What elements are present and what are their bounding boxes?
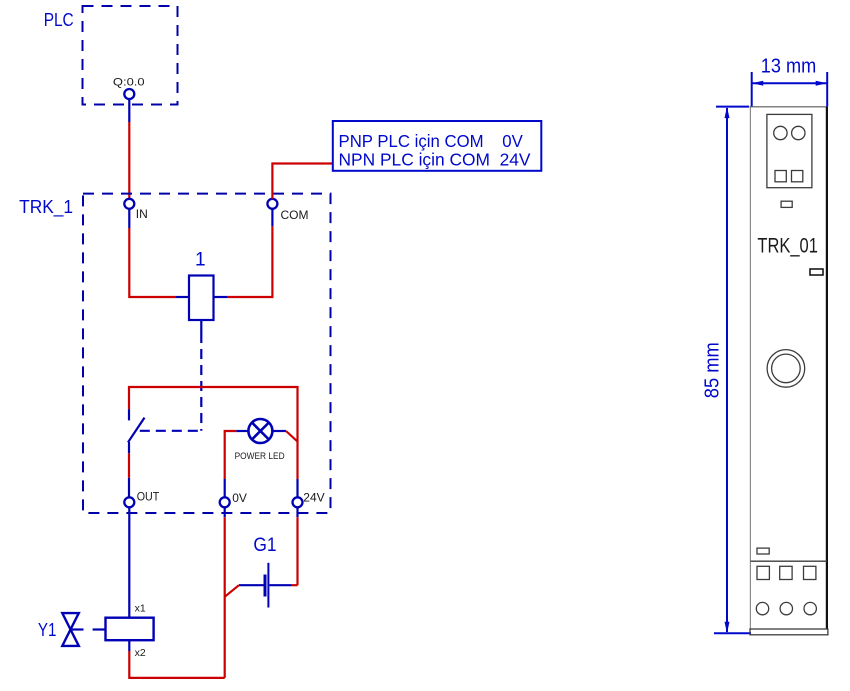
wire IN blue stub below [128, 209, 130, 228]
mechanical link dashed horizontal [140, 430, 202, 432]
svg-text:POWER LED: POWER LED [235, 451, 285, 462]
svg-text:1: 1 [195, 250, 206, 271]
svg-text:IN: IN [136, 207, 148, 221]
svg-text:OUT: OUT [137, 490, 160, 504]
terminal IN [124, 199, 134, 209]
wire coil to COM vertical (red) [227, 226, 272, 297]
wire 24V down to battery (red) [296, 517, 298, 585]
svg-text:G1: G1 [253, 535, 276, 556]
wire red loop top [129, 387, 298, 479]
wire 0V down (red) [224, 517, 226, 678]
pin label COM [281, 208, 309, 222]
svg-text:0V: 0V [232, 491, 247, 505]
module divider line [751, 560, 828, 562]
label TRK_1 [19, 197, 73, 218]
pin label 0V [232, 491, 247, 505]
wire lamp to 0V vertical (red) [225, 431, 237, 479]
mechanical link solid stub [200, 320, 202, 333]
wire 0V blue stub below [224, 507, 226, 517]
wire COM blue stub below [271, 209, 273, 227]
bottom circles [756, 602, 816, 614]
contact top stub (blue) [128, 409, 130, 420]
connector squares [775, 171, 803, 182]
small slot right [810, 269, 823, 275]
wire 24V blue stub above [296, 479, 298, 498]
label POWER LED [235, 451, 285, 462]
dimension 13 mm arrow line [752, 81, 828, 86]
wire Q:0.0 blue stub [128, 99, 130, 122]
small slot bottom left [757, 548, 769, 554]
label G1 [253, 535, 276, 556]
battery left wire (blue) [239, 584, 264, 586]
battery to 24V line (red) [292, 584, 298, 586]
valve stub [71, 628, 84, 630]
solenoid coil Y1 [106, 618, 154, 641]
svg-text:24V: 24V [303, 490, 324, 504]
ring [767, 350, 805, 388]
wire 24V blue stub below [296, 507, 298, 517]
contact bottom stub (blue) [128, 442, 130, 453]
battery G1 [265, 563, 268, 608]
note text line 1 [339, 131, 524, 151]
dimension 85 mm line [714, 107, 751, 634]
wire OUT blue stub above [128, 478, 130, 498]
svg-text:PLC: PLC [44, 10, 74, 30]
wire coil right stub (blue) [214, 296, 228, 298]
pin label x1 [135, 602, 146, 614]
battery junction diagonal (red) [225, 585, 239, 597]
svg-text:x1: x1 [135, 602, 146, 614]
label 1 (coil) [195, 250, 206, 271]
pin label OUT [137, 490, 160, 504]
wire COM to note box (red) [272, 164, 333, 199]
note text line 2 [339, 150, 531, 170]
label PLC [44, 10, 74, 30]
PLC enclosure box [83, 6, 178, 105]
terminal COM [267, 199, 277, 209]
svg-text:Y1: Y1 [38, 619, 57, 640]
battery right wire (blue) [270, 584, 292, 586]
svg-text:x2: x2 [135, 647, 146, 659]
svg-text:PNP PLC için COM 0V: PNP PLC için COM 0V [339, 131, 524, 151]
module bottom plate [750, 629, 828, 635]
contact blade [128, 418, 145, 443]
TRK_1 enclosure box [83, 194, 331, 513]
wire x2 to 0V line (red) [129, 651, 224, 678]
lamp POWER LED [248, 419, 272, 443]
wire OUT to solenoid x1 (blue) [128, 507, 130, 618]
pin label IN [136, 207, 148, 221]
dimension 13 mm extension lines [752, 72, 828, 107]
label Y1 [38, 619, 57, 640]
svg-text:TRK_1: TRK_1 [19, 197, 73, 218]
label TRK_01 [757, 234, 818, 258]
small slot below connector [781, 201, 792, 207]
wire 0V blue stub above [224, 479, 226, 498]
wire IN down to coil row (red) [129, 228, 175, 297]
terminal 24V [293, 497, 303, 507]
wire contact to OUT (red) [128, 453, 130, 478]
lamp left stub (blue) [236, 430, 248, 432]
dimension label 85 mm (rotated) [701, 342, 723, 398]
dimension label 13 mm [761, 56, 817, 78]
relay coil 1 [189, 276, 214, 321]
module top connector box [767, 114, 812, 187]
pin label 24V [303, 490, 324, 504]
connector circles [774, 126, 805, 139]
svg-text:85 mm: 85 mm [701, 342, 723, 398]
svg-text:13 mm: 13 mm [761, 56, 817, 78]
terminal 0V [220, 497, 230, 507]
wire Q:0.0 to IN (red) [128, 122, 130, 199]
terminal OUT [124, 497, 134, 507]
bottom squares [757, 566, 816, 579]
lamp right stub (blue) [272, 430, 286, 432]
svg-text:COM: COM [281, 208, 309, 222]
wire coil left stub (blue) [175, 296, 189, 298]
valve Y1 bowtie [62, 613, 79, 646]
module outline [750, 107, 827, 630]
pin label x2 [135, 647, 146, 659]
svg-text:TRK_01: TRK_01 [757, 234, 818, 258]
svg-text:NPN PLC için COM 24V: NPN PLC için COM 24V [339, 150, 531, 170]
wire lamp diagonal to 24V line (red) [286, 431, 298, 442]
svg-text:Q:0.0: Q:0.0 [113, 76, 145, 88]
note box PNP/NPN [333, 121, 542, 171]
wire x2 blue stub [128, 640, 130, 651]
solenoid stub [93, 628, 106, 630]
pin label Q:0.0 [113, 76, 145, 88]
mechanical link dashed vertical [200, 333, 202, 431]
terminal Q:0.0 [124, 89, 134, 99]
